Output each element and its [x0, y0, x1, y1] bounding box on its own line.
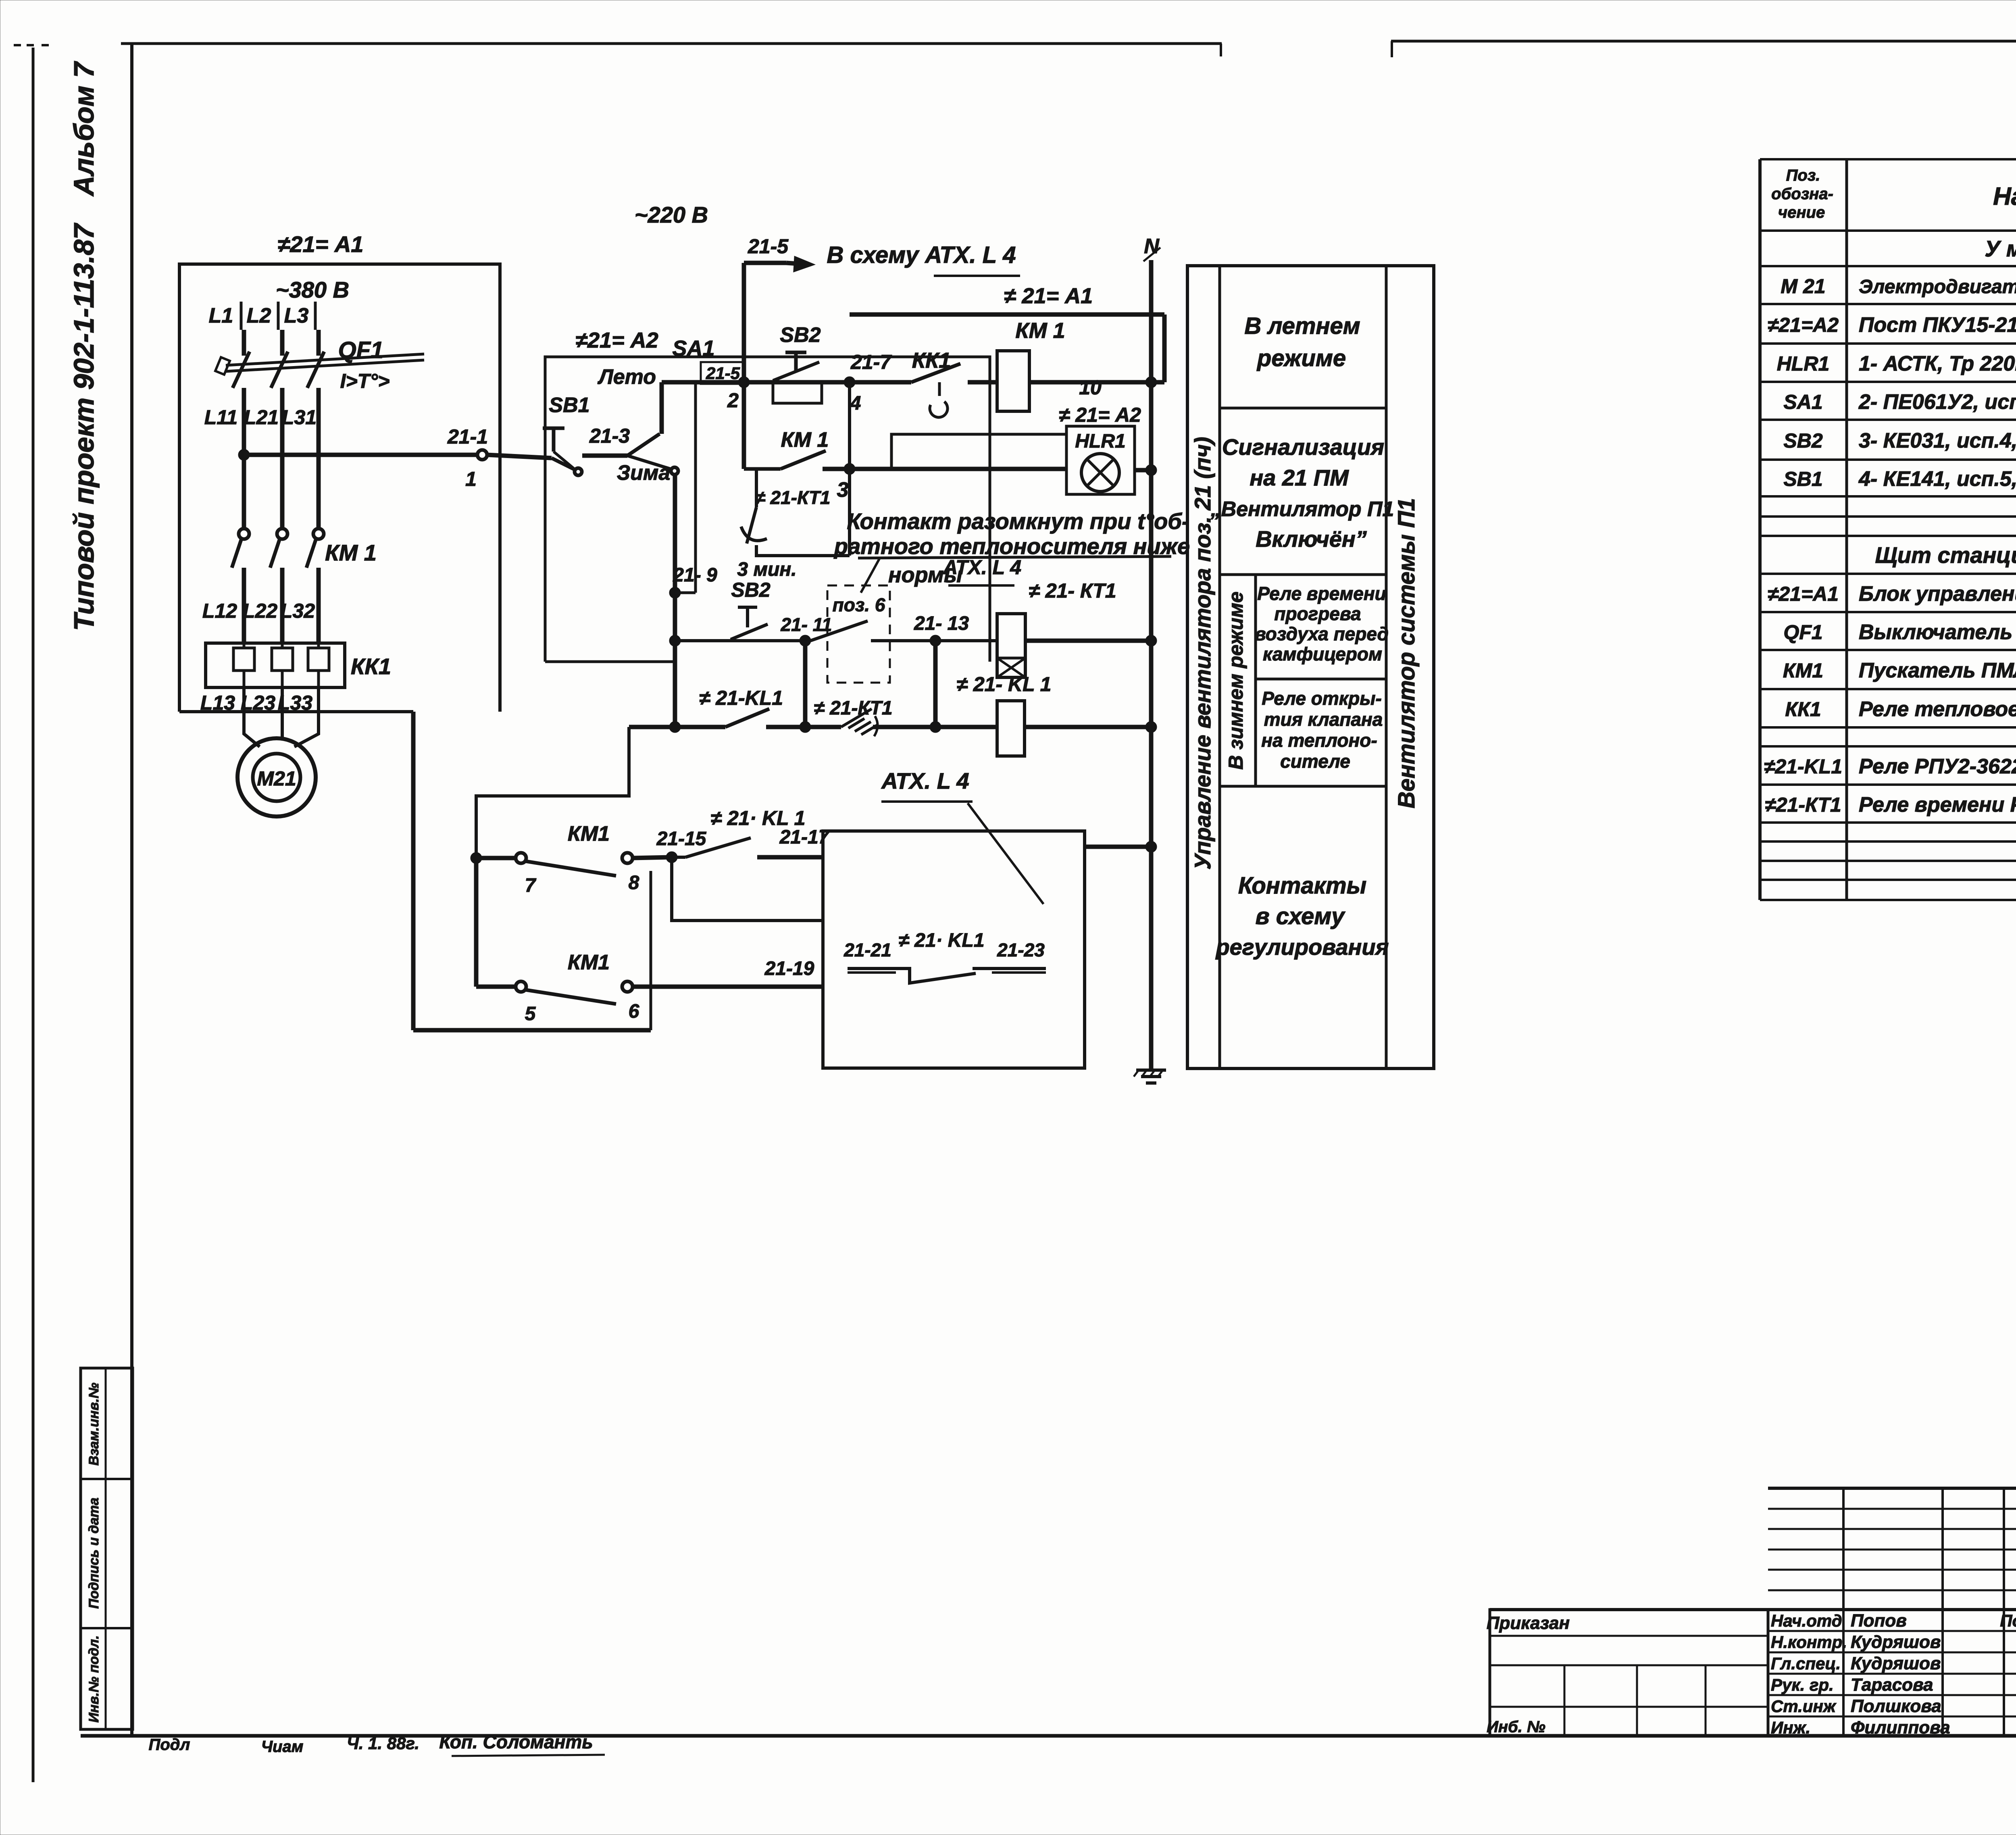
vertical node4-node3-KT1 [848, 382, 851, 556]
handwritten note: Чист [261, 1738, 304, 1756]
circuit breaker QF1 [215, 337, 424, 392]
wire 21-5 to ATX with arrow [744, 235, 813, 271]
wire 21-19 into ATX box [632, 958, 823, 987]
svg-text:в схему: в схему [1256, 903, 1346, 929]
svg-text:КМ 1: КМ 1 [325, 540, 377, 565]
svg-text:SB2: SB2 [1783, 429, 1822, 452]
svg-text:регулирования: регулирования [1215, 934, 1389, 960]
dashed box поз.6 [827, 585, 890, 683]
svg-text:Сигнализация: Сигнализация [1222, 434, 1384, 460]
wire phase L3 mid [317, 388, 321, 529]
svg-text:камфицером: камфицером [1263, 644, 1382, 664]
svg-text:3: 3 [837, 478, 849, 502]
note: Контакт разомкнут при t° обратного теплоносителя ниже нормы [833, 508, 1190, 593]
svg-text:Щит станций управления ЩСУ: Щит станций управления ЩСУ [1875, 542, 2016, 568]
cell text: В летнем режиме [1244, 313, 1360, 371]
wire row B left drop [742, 382, 746, 469]
svg-text:поз. 6: поз. 6 [833, 594, 885, 615]
svg-text:L1: L1 [209, 304, 233, 327]
title block outline [1490, 1488, 2016, 1736]
svg-text:6: 6 [629, 1001, 639, 1022]
svg-text:Взам.инв.№: Взам.инв.№ [86, 1383, 102, 1466]
wire phase L1 mid [242, 388, 246, 529]
svg-text:L21: L21 [244, 406, 279, 429]
function columns divider right [1385, 266, 1388, 1069]
pushbutton SB1 (Стоп) [543, 394, 590, 475]
contact 21-21/≠21-KL1/21-23 inside box [843, 930, 1046, 983]
time relay coil ≠21-KT1 [942, 556, 1116, 677]
wire rail drop to N [1162, 315, 1167, 382]
label SA1 [672, 336, 714, 360]
svg-text:21-7: 21-7 [850, 351, 892, 373]
delayed contact ≠21-KT1 on row5 [814, 698, 892, 736]
svg-text:Коп. Соломанть: Коп. Соломанть [439, 1731, 593, 1752]
svg-text:обозна-: обозна- [1771, 185, 1833, 203]
junction N at lamp row [1145, 464, 1157, 476]
table row: ≠21-KL1 [1764, 755, 2016, 778]
svg-text:≠ 21· KL 1: ≠ 21· KL 1 [711, 807, 806, 829]
svg-text:21-19: 21-19 [764, 958, 814, 979]
svg-text:≠ 21· KL1: ≠ 21· KL1 [898, 930, 984, 951]
svg-text:Инв.№ подл.: Инв.№ подл. [86, 1635, 102, 1723]
svg-text:SA1: SA1 [1783, 391, 1822, 413]
table row: ≠21=А2 [1768, 313, 2016, 337]
svg-text:3 мин.: 3 мин. [737, 559, 796, 580]
wire 21-1 continuation [487, 455, 552, 458]
KK1 heater element phase 2 [272, 643, 293, 687]
svg-text:М21: М21 [257, 767, 296, 790]
label Лето [597, 365, 656, 389]
svg-text:Подпись и дата: Подпись и дата [86, 1498, 102, 1609]
cell text: Контакты в схему регулирования [1215, 873, 1389, 960]
node 21-11 [780, 614, 832, 646]
block A1 enclosure box [179, 264, 500, 712]
junction N at row5 [669, 635, 1157, 733]
svg-text:≠21=А1: ≠21=А1 [1768, 583, 1839, 605]
motor M21 [237, 738, 316, 816]
svg-text:Вентилятор системы П1: Вентилятор системы П1 [1393, 498, 1420, 808]
wire phase L2 lower [280, 568, 285, 644]
wire Зима rail [673, 474, 677, 727]
block A2 enclosure box [545, 328, 990, 662]
svg-text:чение: чение [1778, 204, 1825, 221]
svg-text:Пускатель ПМЛ110004В с пристав: Пускатель ПМЛ110004В с приставкой ПКЛ200… [1859, 659, 2016, 682]
svg-text:Пост ПКУ15-21. 141-54У2 с саль: Пост ПКУ15-21. 141-54У2 с сальником ф19: [1859, 313, 2016, 337]
svg-text:SA1: SA1 [672, 336, 714, 360]
svg-text:10: 10 [1079, 376, 1102, 399]
svg-text:L22: L22 [243, 600, 277, 622]
table row: SA1 [1783, 390, 2016, 414]
sheet frame: top-left corner dashes [14, 44, 54, 46]
svg-text:Кудряшов: Кудряшов [1851, 1654, 1941, 1673]
interlock contact ≠21-KL1 aux [672, 807, 805, 857]
svg-text:HLR1: HLR1 [1075, 431, 1125, 452]
svg-text:В летнем: В летнем [1244, 313, 1360, 339]
svg-text:В схему АТХ. L 4: В схему АТХ. L 4 [827, 242, 1016, 268]
svg-text:21-5: 21-5 [748, 235, 789, 258]
column caption: Управление вентилятора поз.21(пч) [1190, 437, 1215, 869]
time contact ≠21-KT1 bypass [741, 469, 850, 556]
node 21-13 [914, 613, 969, 646]
svg-text:Типовой проект 902-1-113.87: Типовой проект 902-1-113.87 [68, 223, 100, 631]
sheet frame: top border right segment [1391, 41, 2016, 57]
KK1 heater element phase 1 [233, 643, 254, 687]
wire row A left (node2 to KK1) [662, 380, 911, 385]
svg-text:7: 7 [525, 875, 537, 896]
row divider 2 [1220, 573, 1386, 576]
label ~380 В [276, 277, 349, 302]
wire row 5 left [629, 725, 725, 729]
svg-text:воздуха перед: воздуха перед [1255, 623, 1389, 644]
wire row5 to N [1025, 725, 1151, 729]
node 2 junction [738, 377, 750, 388]
svg-text:QF1: QF1 [338, 337, 384, 363]
sub column: В зимнем режиме [1225, 575, 1256, 786]
wire motor leads [244, 687, 319, 747]
svg-text:Н.контр.: Н.контр. [1771, 1633, 1847, 1652]
svg-text:М 21: М 21 [1781, 275, 1825, 298]
margin text: Альбом 7 [68, 61, 100, 197]
sheet frame: inner left border [130, 44, 133, 1736]
block АТХ.L4 box [823, 831, 1085, 1068]
aux contact KM1 (5-6) [476, 951, 639, 1025]
svg-text:Включён”: Включён” [1256, 526, 1367, 552]
junction N at ATX row [1145, 841, 1157, 852]
junction 21-15 [656, 828, 707, 863]
svg-text:8: 8 [629, 872, 639, 894]
svg-text:L2: L2 [247, 304, 271, 327]
table row: QF1 [1783, 621, 2016, 644]
svg-text:SB2: SB2 [731, 579, 770, 601]
svg-text:„Вентилятор П1: „Вентилятор П1 [1210, 498, 1394, 521]
svg-text:L23: L23 [241, 692, 275, 714]
contactor KM1 main contacts [232, 529, 377, 568]
svg-text:режиме: режиме [1256, 345, 1346, 371]
svg-text:L31: L31 [282, 406, 317, 429]
svg-text:SB1: SB1 [549, 394, 589, 417]
svg-text:КМ 1: КМ 1 [781, 428, 829, 452]
table row: ≠21-КТ1 [1765, 793, 2016, 816]
svg-text:≠ 21-КТ1: ≠ 21-КТ1 [755, 487, 830, 508]
svg-text:Гл.спец.: Гл.спец. [1771, 1654, 1841, 1673]
svg-text:Наименование: Наименование [1993, 183, 2016, 210]
stamp column box [81, 1368, 133, 1729]
svg-text:SB1: SB1 [1783, 468, 1822, 490]
wire 21-5 riser [742, 263, 746, 382]
note: В схему АТХ.L4 [827, 242, 1020, 276]
interlock contact ≠21-KL1 [699, 687, 783, 727]
margin text: Типовой проект 902-1-113.87 [68, 223, 100, 631]
node 4 (21-7) [844, 351, 892, 414]
lamp HLR1 box [1059, 404, 1141, 494]
wire phase L1 upper [242, 330, 246, 356]
ground symbol [1134, 1070, 1166, 1083]
svg-text:нормы: нормы [888, 563, 962, 587]
svg-text:Инб. №: Инб. № [1487, 1718, 1545, 1736]
svg-text:Подл: Подл [149, 1736, 190, 1754]
svg-text:L32: L32 [280, 600, 315, 622]
svg-text:L11: L11 [204, 406, 237, 429]
svg-text:КМ1: КМ1 [568, 951, 610, 974]
cell text: Реле времени прогрева воздуха перед камфицером [1255, 583, 1389, 664]
svg-text:21-15: 21-15 [656, 828, 707, 850]
table row: Щит станций управления ЩСУ [1875, 542, 2016, 568]
selector switch SA1 blade Зима [627, 456, 678, 475]
row divider 1 [1220, 407, 1386, 410]
table row: М 21 [1781, 275, 2016, 298]
svg-text:Кудряшов: Кудряшов [1851, 1632, 1941, 1652]
cell text: Сигнализация на 21ПМ Вентилятор П1 Включён [1210, 434, 1394, 552]
stamp text: Взам.инв.№ [86, 1383, 102, 1466]
svg-text:L12: L12 [202, 600, 237, 622]
wire riser x1725 [694, 382, 697, 593]
title block: signature names [1771, 1611, 2016, 1737]
relay coil ≠21-KL1 [957, 673, 1052, 756]
svg-text:тия клапана: тия клапана [1264, 709, 1383, 730]
table row: SB2 [1783, 429, 2016, 452]
label Зима [617, 461, 671, 485]
svg-text:ратного теплоносителя ниже: ратного теплоносителя ниже [833, 533, 1190, 559]
svg-text:КК1: КК1 [351, 654, 391, 679]
wire 21-17 into ATX box [757, 827, 830, 857]
svg-text:SB2: SB2 [780, 323, 821, 347]
junction N at row4 [1145, 635, 1157, 646]
svg-text:2: 2 [727, 389, 739, 412]
svg-text:I>T°>: I>T°> [340, 370, 390, 392]
svg-text:HLR1: HLR1 [1777, 352, 1830, 375]
svg-text:1- АСТК, Тр 220В„Вент. П1 Вкл: 1- АСТК, Тр 220В„Вент. П1 Включён” [1859, 352, 2016, 375]
svg-text:≠ 21- КТ1: ≠ 21- КТ1 [1029, 579, 1116, 602]
component table grid [1760, 159, 2016, 900]
KK1 heater element phase 3 [308, 643, 329, 687]
function columns outer box [1187, 266, 1434, 1069]
wire phase L1 lower [242, 568, 246, 644]
svg-text:≠21= А1: ≠21= А1 [278, 231, 364, 257]
label ≠21=A1 (power block) [278, 231, 364, 257]
handwritten note: date Ч.1.88г [347, 1734, 419, 1753]
table header Наименование [1993, 183, 2016, 210]
svg-text:Приказан: Приказан [1487, 1613, 1570, 1633]
svg-text:≠ 21= А1: ≠ 21= А1 [1004, 284, 1093, 308]
svg-text:Лето: Лето [597, 365, 656, 389]
label 3 мин [737, 559, 796, 580]
wire lamp to N [1135, 468, 1151, 473]
wire KM1 coil to N [1029, 376, 1164, 399]
wire row5 to coil [873, 725, 997, 729]
svg-text:Выключатель АЕ2026-10НУЗ-Б, Iр: Выключатель АЕ2026-10НУЗ-Б, Iр=5А [1859, 621, 2016, 644]
svg-text:прогрева: прогрева [1274, 603, 1361, 624]
svg-text:21-5: 21-5 [706, 364, 740, 383]
svg-text:Альбом 7: Альбом 7 [68, 61, 100, 197]
svg-text:2- ПЕ061У2, исп.2,„Лето-Зима”: 2- ПЕ061У2, исп.2,„Лето-Зима” [1858, 390, 2016, 414]
table row: ≠21=А1 [1768, 582, 2016, 606]
table row: У механизма [1985, 236, 2016, 261]
svg-text:Тарасова: Тарасова [1851, 1675, 1933, 1695]
table header Поз.обозначение [1771, 167, 1833, 221]
wire aux mid rail [474, 858, 479, 987]
wire phase L2 mid [280, 388, 285, 529]
pushbutton SB2 (Пуск) lower [731, 579, 771, 639]
phase labels L1 L2 L3 [209, 302, 315, 330]
svg-text:5: 5 [525, 1003, 536, 1025]
wire row 4 (21-11 / 21-13) [675, 639, 997, 642]
label поз.6 [833, 594, 885, 615]
svg-text:АТХ. L 4: АТХ. L 4 [881, 768, 969, 794]
svg-text:Инж.: Инж. [1771, 1718, 1810, 1737]
wire drop 21-15 to ATX box [672, 857, 823, 921]
svg-text:L13: L13 [200, 692, 235, 714]
wire row5 mid [766, 725, 841, 729]
labels L11 L21 L31 [204, 406, 317, 429]
sheet frame: top border left segment [121, 44, 1222, 56]
svg-text:~220 В: ~220 В [635, 202, 708, 227]
lamp HLR1 [1081, 454, 1119, 492]
junction aux rail top [471, 852, 482, 864]
svg-text:КМ 1: КМ 1 [1015, 319, 1065, 343]
wire aux left rail [411, 712, 416, 1030]
svg-text:3- КЕ031, исп.4, 2„ПУСК”: 3- КЕ031, исп.4, 2„ПУСК” [1859, 429, 2016, 452]
contactor coil KM1 [997, 319, 1065, 411]
column caption: Вентилятор системы П1 [1393, 498, 1420, 808]
sheet frame: bottom border [81, 1734, 2016, 1738]
svg-text:Реле времени РКВ11-43-112-УХЛ4: Реле времени РКВ11-43-112-УХЛ4 ~220В [1859, 793, 2016, 816]
svg-text:В зимнем режиме: В зимнем режиме [1225, 592, 1247, 770]
svg-text:Нач.отд: Нач.отд [1771, 1611, 1842, 1630]
stamp text: Инв.№ подл. [86, 1635, 102, 1723]
svg-text:Ч. 1. 88г.: Ч. 1. 88г. [347, 1734, 419, 1753]
label N [1143, 235, 1160, 261]
selector switch SA1 blade Лето [627, 382, 662, 456]
wire jog to lamp box top [891, 434, 1066, 469]
svg-text:Попов: Попов [1851, 1611, 1907, 1631]
node 21-1 tap on phase L11 [238, 449, 250, 460]
svg-text:21- 11: 21- 11 [780, 614, 832, 635]
handwritten note: Коп. Соломант [439, 1731, 605, 1756]
sheet frame: left outer border [32, 48, 35, 1782]
svg-text:~380 В: ~380 В [276, 277, 349, 302]
svg-text:21-1: 21-1 [447, 425, 488, 448]
thermal relay KK1 box [206, 643, 391, 687]
wire neutral N [1149, 260, 1154, 1070]
svg-text:Блок управления Б5130-2674 ГУХ: Блок управления Б5130-2674 ГУХЛ4: [1859, 582, 2016, 606]
svg-text:сителе: сителе [1280, 751, 1350, 772]
svg-text:Филиппова: Филиппова [1851, 1718, 1950, 1737]
table row: SB1 [1783, 467, 2016, 491]
svg-text:на 21 ПМ: на 21 ПМ [1250, 465, 1349, 490]
cable tag 21-5 boxed [701, 362, 745, 412]
table row: HLR1 [1777, 352, 2016, 375]
svg-text:≠21=А2: ≠21=А2 [1768, 314, 1839, 336]
handwritten note: Подл [149, 1736, 190, 1754]
labels L13 L23 L33 [200, 692, 312, 714]
svg-text:Реле времени: Реле времени [1257, 583, 1386, 604]
svg-text:21-21: 21-21 [843, 939, 891, 960]
svg-text:Полшкова: Полшкова [1851, 1696, 1941, 1716]
pushbutton SB2 (Пуск) upper [773, 323, 822, 403]
svg-text:Поз.: Поз. [1786, 167, 1820, 184]
wire phase L2 upper [280, 330, 285, 356]
wire aux right riser [650, 871, 652, 1030]
node 3 junction [837, 463, 855, 502]
node 21-9 [669, 564, 717, 598]
svg-text:QF1: QF1 [1783, 621, 1822, 644]
svg-text:КК1: КК1 [1785, 698, 1821, 721]
wire aux bottom rail [413, 1028, 651, 1033]
svg-text:21- 13: 21- 13 [914, 613, 969, 634]
svg-text:на теплоно-: на теплоно- [1261, 730, 1377, 751]
wire phase L3 lower [317, 568, 321, 644]
svg-text:КМ1: КМ1 [568, 822, 610, 846]
svg-text:≠21= А2: ≠21= А2 [575, 328, 658, 352]
label АТХ.L4 with leader [881, 768, 1043, 904]
label ~220 В [635, 202, 708, 227]
svg-text:Контакты: Контакты [1238, 873, 1366, 899]
wire ATX box to N [1085, 845, 1151, 849]
function columns divider left [1218, 266, 1221, 1069]
wire row4 to N [1025, 639, 1151, 643]
svg-text:Ст.инж: Ст.инж [1771, 1697, 1837, 1716]
svg-text:Реле тепловое РТЛ-100804С, Iн.: Реле тепловое РТЛ-100804С, Iн.з=4А [1859, 698, 2016, 721]
svg-text:≠ 21= А2: ≠ 21= А2 [1059, 404, 1141, 426]
svg-text:L3: L3 [284, 304, 309, 327]
title block: revision grid [1768, 1488, 2016, 1736]
wire riser 21-13/KL1 [933, 641, 938, 727]
svg-text:≠ 21-КТ1: ≠ 21-КТ1 [814, 698, 892, 719]
seal-in contact KM1 [744, 428, 850, 469]
svg-text:Рук. гр.: Рук. гр. [1771, 1675, 1834, 1694]
wire 21-1 from power to control [244, 425, 488, 490]
labels L12 L22 L32 [202, 600, 315, 622]
temperature contact поз.6 [810, 621, 868, 641]
title block: signature rows [1768, 1631, 2016, 1716]
svg-text:Реле откры-: Реле откры- [1262, 688, 1382, 709]
table row: КМ1 [1783, 659, 2016, 682]
title block: left stamp box [1487, 1610, 1768, 1736]
svg-text:1: 1 [465, 468, 477, 490]
svg-text:≠ 21- KL 1: ≠ 21- KL 1 [957, 673, 1052, 696]
svg-text:≠ 21-KL1: ≠ 21-KL1 [699, 687, 783, 709]
wire riser 21-11/KT1 [803, 641, 808, 727]
svg-text:4: 4 [850, 393, 861, 414]
svg-text:21-23: 21-23 [997, 939, 1045, 960]
svg-text:У механизма: У механизма [1985, 236, 2016, 261]
row divider 4 [1220, 785, 1386, 788]
wire phase L3 upper [317, 330, 321, 356]
svg-text:Контакт разомкнут при t°об-: Контакт разомкнут при t°об- [847, 508, 1189, 534]
aux contact KM1 (7-8) [476, 822, 672, 896]
stamp text: Подпись и дата [86, 1498, 102, 1609]
row divider 3 [1256, 678, 1386, 681]
wire row5 drop to aux rail [476, 727, 629, 858]
svg-text:Зима: Зима [617, 461, 671, 485]
wire row B to lamp [850, 467, 1066, 471]
svg-text:Подп.: Подп. [2000, 1611, 2016, 1630]
wire 21-3 [582, 454, 627, 458]
thermal contact KK1 [911, 348, 997, 417]
svg-text:≠21-KL1: ≠21-KL1 [1764, 755, 1842, 778]
svg-text:Электродвигатель 4А80А4УЗ;~380: Электродвигатель 4А80А4УЗ;~380 В; 1,1кВт [1859, 276, 2016, 298]
svg-text:4- КЕ141, исп.5, к „Стоп”: 4- КЕ141, исп.5, к „Стоп” [1858, 467, 2016, 491]
terminal 1 of block A1 [477, 450, 487, 460]
svg-text:КМ1: КМ1 [1783, 659, 1823, 682]
svg-text:Чиам: Чиам [261, 1738, 304, 1756]
cell text: Реле открытия клапана на теплоносителе [1261, 688, 1383, 772]
label 21-3 [589, 425, 630, 447]
svg-text:21-3: 21-3 [589, 425, 630, 447]
table row: КК1 [1785, 698, 2016, 721]
svg-text:≠21-КТ1: ≠21-КТ1 [1765, 794, 1841, 816]
junction N at coil row [1145, 377, 1157, 388]
